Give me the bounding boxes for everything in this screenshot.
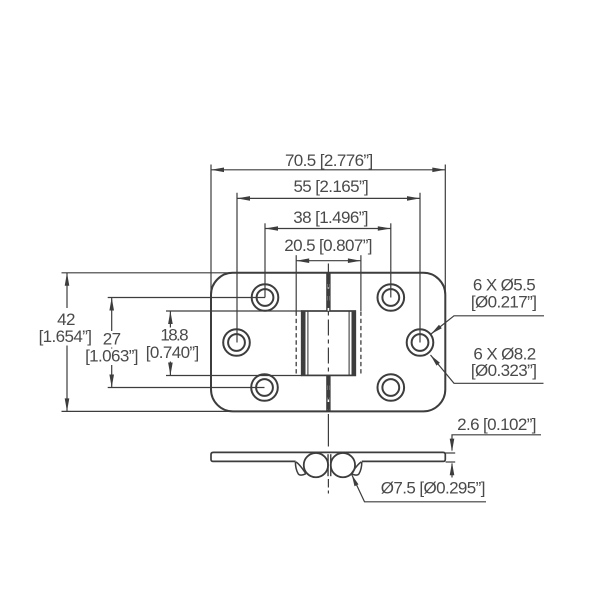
svg-text:20.5 [0.807”]: 20.5 [0.807”] bbox=[284, 236, 372, 255]
svg-text:[Ø0.217”]: [Ø0.217”] bbox=[471, 293, 536, 312]
svg-text:55 [2.165”]: 55 [2.165”] bbox=[293, 177, 368, 196]
svg-text:[1.654”]: [1.654”] bbox=[39, 327, 92, 346]
svg-text:2.6 [0.102”]: 2.6 [0.102”] bbox=[457, 415, 536, 434]
svg-text:Ø7.5 [Ø0.295”]: Ø7.5 [Ø0.295”] bbox=[381, 479, 485, 498]
svg-text:[0.740”]: [0.740”] bbox=[146, 343, 199, 362]
svg-text:42: 42 bbox=[57, 310, 75, 329]
svg-text:27: 27 bbox=[103, 329, 121, 348]
svg-text:18.8: 18.8 bbox=[160, 326, 188, 345]
svg-text:[Ø0.323”]: [Ø0.323”] bbox=[471, 361, 536, 380]
svg-text:70.5 [2.776”]: 70.5 [2.776”] bbox=[285, 151, 373, 170]
svg-text:[1.063”]: [1.063”] bbox=[85, 347, 138, 366]
svg-text:38 [1.496”]: 38 [1.496”] bbox=[293, 208, 368, 227]
